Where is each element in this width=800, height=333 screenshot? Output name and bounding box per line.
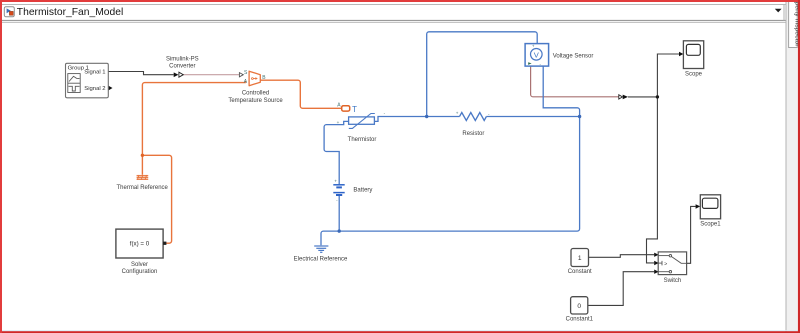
svg-text:Electrical Reference: Electrical Reference — [294, 256, 348, 262]
svg-text:Voltage Sensor: Voltage Sensor — [553, 53, 594, 59]
svg-text:Signal 2: Signal 2 — [84, 86, 105, 92]
svg-text:Thermistor: Thermistor — [348, 137, 377, 143]
svg-text:Battery: Battery — [353, 188, 372, 194]
svg-text:Resistor: Resistor — [462, 131, 484, 137]
svg-text:1: 1 — [578, 255, 582, 262]
svg-text:f(x) = 0: f(x) = 0 — [130, 241, 150, 248]
svg-text:Constant1: Constant1 — [566, 316, 594, 322]
svg-text:Temperature Source: Temperature Source — [228, 98, 283, 104]
svg-text:Scope: Scope — [685, 71, 703, 77]
svg-text:Scope1: Scope1 — [700, 221, 721, 227]
svg-text:Signal 1: Signal 1 — [84, 70, 105, 76]
svg-text:Constant: Constant — [568, 269, 592, 275]
svg-text:+: + — [456, 111, 459, 116]
svg-text:>: > — [664, 261, 667, 267]
svg-text:Thermistor_Fan_Model: Thermistor_Fan_Model — [17, 7, 123, 18]
svg-text:Converter: Converter — [169, 64, 195, 70]
svg-text:Configuration: Configuration — [122, 269, 158, 275]
svg-text:Thermal Reference: Thermal Reference — [117, 185, 169, 191]
svg-text:+: + — [334, 179, 337, 184]
svg-text:Switch: Switch — [664, 278, 682, 284]
svg-text:T: T — [352, 105, 357, 114]
svg-text:Solver: Solver — [131, 262, 148, 268]
svg-text:+: + — [532, 44, 535, 49]
svg-text:+: + — [337, 120, 340, 125]
svg-text:Controlled: Controlled — [242, 91, 269, 97]
svg-text:0: 0 — [577, 303, 581, 310]
svg-text:Simulink-PS: Simulink-PS — [166, 57, 199, 63]
